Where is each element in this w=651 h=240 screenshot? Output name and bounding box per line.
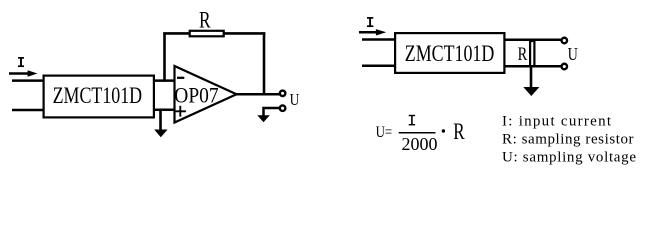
wire: feedback tap vertical (inverting input node up to feedback): [163, 32, 166, 81]
sampling resistor R (vertical, right circuit): [530, 41, 534, 66]
svg-text:ZMCT101D: ZMCT101D: [53, 83, 143, 108]
wire: ZMCT101D output top to op-amp inverting input: [154, 79, 175, 82]
ground (below non-inverting input): [154, 130, 167, 138]
wire: bottom input to ZMCT101D: [12, 109, 44, 112]
wire: feedback right vertical down to output: [263, 33, 266, 94]
wire: top output to terminal (right circuit): [505, 38, 561, 41]
current transformer ZMCT101D (right): [395, 33, 504, 73]
current direction arrow (left circuit): [9, 70, 37, 77]
svg-text:I: input current: I: input current: [502, 114, 612, 130]
current transformer ZMCT101D (left): [44, 76, 154, 118]
svg-text:R: sampling resistor: R: sampling resistor: [502, 132, 634, 148]
svg-text:R: R: [518, 44, 528, 65]
op-amp OP07: [174, 66, 236, 123]
wire: ZMCT101D output bottom to op-amp non-inverting input: [154, 108, 176, 111]
output terminal bottom (left circuit): [280, 105, 286, 111]
wire: feedback top horizontal: [163, 32, 265, 35]
wire: lower terminal to ground (left circuit): [264, 108, 280, 116]
svg-text:U: U: [290, 90, 300, 109]
output terminal bottom (right circuit): [562, 64, 568, 70]
label I (input current, right circuit): [367, 17, 373, 27]
wire: bottom input (right circuit): [362, 65, 396, 68]
svg-text:R: R: [453, 119, 465, 144]
label I (input current, left circuit): [18, 57, 24, 67]
wire: ground tap from non-inverting input wire: [159, 110, 162, 131]
formula fraction bar: [399, 132, 436, 134]
svg-text:U: U: [568, 44, 578, 64]
output terminal top (left circuit): [280, 91, 286, 97]
svg-text:ZMCT101D: ZMCT101D: [405, 41, 495, 66]
svg-text:U: sampling voltage: U: sampling voltage: [502, 150, 636, 166]
current direction arrow (right circuit): [359, 29, 386, 35]
svg-text:OP07: OP07: [174, 82, 218, 107]
output terminal top (right circuit): [562, 38, 568, 44]
formula numerator I: [409, 115, 415, 125]
wire: top input (right circuit): [362, 38, 396, 41]
svg-text:R: R: [199, 8, 211, 33]
ground (right circuit): [523, 87, 539, 96]
ground (below output terminal, left circuit): [257, 115, 270, 122]
wire: top input to ZMCT101D: [12, 79, 44, 82]
wire: op-amp output: [237, 93, 281, 96]
svg-text:2000: 2000: [402, 134, 438, 154]
feedback resistor R (left circuit): [190, 31, 224, 37]
formula multiplication dot: [442, 129, 445, 132]
wire: ground stub below resistor (right circuit): [530, 66, 533, 88]
wire: bottom output to terminal (right circuit): [505, 65, 561, 68]
svg-text:U=: U=: [376, 124, 393, 141]
